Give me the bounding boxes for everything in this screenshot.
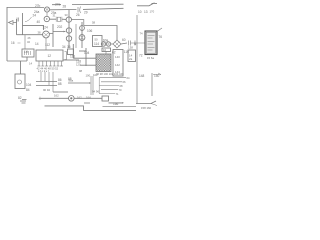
- svg-text:120: 120: [76, 63, 81, 67]
- squiggle 150: [153, 73, 161, 75]
- svg-text:140: 140: [115, 55, 120, 59]
- svg-text:64: 64: [127, 76, 130, 80]
- svg-text:166: 166: [113, 102, 119, 106]
- svg-text:72: 72: [139, 54, 143, 58]
- svg-text:27b: 27b: [35, 4, 41, 8]
- fan chain vertical: [98, 78, 100, 94]
- svg-text:124: 124: [43, 26, 49, 30]
- memory box T1: [113, 50, 123, 77]
- switch S1: [17, 18, 19, 22]
- svg-text:36: 36: [67, 45, 71, 49]
- capacitor C28: [78, 7, 81, 14]
- crystal box B3: [22, 49, 34, 57]
- capacitor C5: [129, 41, 131, 46]
- wire y19: [50, 18, 67, 20]
- io box B7: [68, 49, 74, 55]
- svg-text:148: 148: [139, 74, 145, 78]
- svg-text:60: 60: [122, 38, 126, 42]
- crystal X1: [57, 17, 60, 21]
- leader 72: [157, 28, 162, 32]
- wire top-left horizontal: [7, 7, 44, 9]
- mixer M3: [79, 35, 85, 41]
- svg-text:66: 66: [123, 80, 126, 84]
- wire Q1 output: [49, 24, 65, 47]
- svg-text:158 160: 158 160: [141, 106, 152, 110]
- svg-text:82: 82: [18, 96, 22, 100]
- svg-text:15 6a: 15 6a: [147, 56, 154, 60]
- svg-text:14: 14: [29, 62, 33, 66]
- svg-text:202: 202: [57, 25, 63, 29]
- svg-text:74: 74: [140, 32, 144, 36]
- svg-text:32: 32: [27, 40, 30, 44]
- bottom wire 5: [136, 101, 156, 104]
- wire y65 into P1: [80, 64, 96, 66]
- svg-text:58: 58: [92, 21, 96, 25]
- mixer M1: [44, 7, 49, 12]
- svg-text:14: 14: [35, 42, 39, 46]
- wire left bus vertical A: [16, 19, 18, 35]
- wire right col: [137, 15, 152, 104]
- wire B7 down: [73, 44, 96, 58]
- svg-text:50: 50: [95, 38, 99, 42]
- wire left vertical: [6, 7, 8, 61]
- transceiver module B2: [145, 31, 157, 55]
- svg-text:88a: 88a: [69, 79, 74, 83]
- svg-text:114: 114: [94, 42, 99, 46]
- wire x86 vertical: [85, 48, 87, 66]
- speaker SP1: [69, 96, 75, 102]
- svg-text:112: 112: [45, 43, 50, 47]
- svg-text:96 98 100 102 104 106: 96 98 100 102 104 106: [96, 72, 124, 76]
- piezo element P1: [96, 54, 111, 72]
- wire top bus A: [52, 3, 124, 6]
- svg-text:33: 33: [65, 13, 68, 17]
- ground G1: [20, 100, 27, 104]
- svg-text:24: 24: [33, 14, 37, 18]
- register box T2: [128, 50, 136, 62]
- wire mid horizontal 1: [23, 25, 44, 30]
- svg-text:142: 142: [115, 63, 120, 67]
- mixer M2: [66, 36, 71, 41]
- fan lines right: [99, 78, 126, 94]
- wire to B3: [24, 35, 26, 49]
- wire column x76: [75, 24, 77, 48]
- bus line 1: [36, 81, 57, 83]
- svg-text:60a: 60a: [103, 39, 109, 43]
- oscillator O2: [66, 28, 71, 33]
- wire under B5: [63, 59, 79, 61]
- svg-text:31: 31: [53, 14, 56, 18]
- bottom wire 3: [84, 102, 123, 104]
- controller box B5: [36, 50, 63, 61]
- arrow head: [64, 31, 66, 33]
- svg-text:1H: 1H: [24, 50, 29, 54]
- svg-text:88: 88: [58, 82, 62, 86]
- wire cap to box: [131, 41, 146, 46]
- svg-text:118: 118: [70, 55, 75, 59]
- wire mid horizontal 2: [17, 34, 43, 36]
- svg-text:104: 104: [84, 51, 90, 55]
- dsp box B8: [102, 48, 111, 52]
- svg-text:10: 10: [103, 48, 107, 52]
- bus line 3: [53, 91, 68, 93]
- wire bus arrow: [68, 82, 90, 84]
- wire lower-left horizontal: [7, 57, 27, 61]
- oscillator O0: [44, 16, 49, 21]
- svg-text:29: 29: [84, 11, 88, 15]
- wire drop to mic box: [20, 61, 22, 74]
- svg-text:150: 150: [154, 74, 160, 78]
- svg-text:104: 104: [26, 83, 32, 87]
- diode D3: [106, 42, 110, 46]
- pins under B5: [39, 61, 62, 66]
- bottom box B10: [102, 96, 109, 101]
- leader arc 24: [25, 17, 32, 22]
- bottom wire 3b: [103, 106, 137, 108]
- svg-text:68: 68: [120, 84, 123, 88]
- pin continuation: [41, 72, 53, 92]
- wire y51: [79, 50, 86, 52]
- svg-text:162: 162: [77, 95, 82, 99]
- svg-text:84: 84: [26, 88, 30, 92]
- junction J2: [39, 97, 42, 100]
- svg-text:106: 106: [87, 29, 93, 33]
- bus line 2: [36, 85, 57, 87]
- wire column x69: [68, 10, 70, 48]
- wire top bus B: [50, 8, 124, 10]
- wire Q1 to B5: [45, 38, 47, 50]
- svg-text:100: 100: [86, 74, 91, 78]
- labels: [11, 3, 162, 111]
- svg-text:76: 76: [159, 35, 163, 39]
- svg-text:a b c d e f: a b c d e f: [38, 70, 49, 73]
- svg-text:26: 26: [76, 13, 80, 17]
- varactor V1: [80, 26, 85, 31]
- svg-text:13: 13: [144, 10, 148, 14]
- leader 16: [18, 42, 21, 44]
- svg-text:16: 16: [11, 41, 15, 45]
- svg-text:98: 98: [79, 69, 82, 73]
- svg-text:27a: 27a: [55, 3, 61, 7]
- svg-text:10: 10: [138, 10, 142, 14]
- leader line 10: [137, 3, 157, 6]
- bottom wire 1: [41, 97, 102, 99]
- transistor Q1: [43, 31, 50, 38]
- microphone box B4: [15, 74, 25, 89]
- wire x91: [91, 76, 93, 95]
- bottom wire 2: [45, 106, 137, 111]
- wire M1 to O0: [46, 12, 48, 16]
- wire to rect net: [84, 26, 117, 41]
- input jack J1: [9, 21, 17, 25]
- oscillator O1: [66, 17, 71, 22]
- diode D2: [101, 42, 105, 46]
- svg-text:62: 62: [112, 51, 116, 55]
- svg-text:170: 170: [150, 10, 155, 14]
- svg-text:162: 162: [54, 94, 59, 98]
- bracket: [65, 52, 67, 60]
- svg-text:26: 26: [28, 36, 31, 40]
- wire column x82: [81, 22, 83, 48]
- wire O1 right: [72, 20, 84, 26]
- wire rect row: [101, 43, 127, 44]
- svg-text:71: 71: [116, 92, 119, 96]
- svg-text:34: 34: [62, 45, 66, 49]
- filter box F1: [93, 36, 103, 47]
- svg-text:138: 138: [128, 46, 133, 50]
- svg-text:12: 12: [48, 54, 52, 58]
- svg-text:90 92: 90 92: [43, 88, 50, 92]
- svg-text:2a: 2a: [129, 57, 133, 61]
- wire left bus vertical B: [22, 13, 24, 35]
- svg-text:40: 40: [37, 20, 41, 24]
- svg-text:164: 164: [86, 95, 91, 99]
- svg-text:38: 38: [38, 31, 41, 35]
- svg-text:70: 70: [119, 88, 122, 92]
- pin ticks row: [38, 65, 64, 67]
- svg-text:94 96: 94 96: [92, 90, 99, 94]
- rectifier D1: [113, 40, 121, 48]
- svg-text:28: 28: [63, 5, 67, 9]
